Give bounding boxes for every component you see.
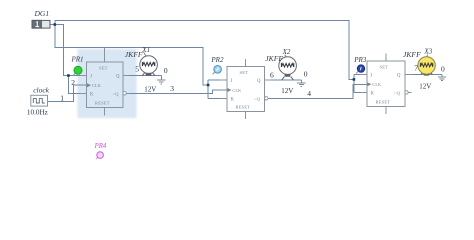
svg-text:4: 4	[307, 89, 311, 98]
svg-text:CLK: CLK	[372, 82, 381, 87]
svg-text:6: 6	[270, 70, 274, 79]
svg-text:DG1: DG1	[34, 9, 50, 18]
svg-text:0: 0	[164, 66, 168, 75]
svg-text:X2: X2	[282, 48, 291, 56]
svg-text:1: 1	[60, 93, 64, 102]
svg-text:RESET: RESET	[376, 100, 391, 105]
svg-text:0: 0	[441, 65, 445, 74]
svg-text:JKFF: JKFF	[125, 50, 143, 59]
svg-text:SET: SET	[99, 66, 108, 71]
svg-text:12V: 12V	[281, 87, 293, 95]
svg-text:JKFF: JKFF	[403, 50, 421, 59]
svg-text:Q: Q	[257, 79, 261, 84]
svg-text:~Q: ~Q	[394, 90, 401, 95]
svg-text:J: J	[371, 74, 373, 79]
svg-text:3: 3	[170, 84, 174, 93]
svg-text:12V: 12V	[419, 82, 431, 90]
svg-text:K: K	[90, 92, 94, 97]
svg-text:Q: Q	[116, 75, 120, 80]
svg-text:10.0Hz: 10.0Hz	[27, 109, 48, 117]
svg-text:RESET: RESET	[95, 101, 110, 106]
svg-text:J: J	[231, 79, 233, 84]
svg-text:X3: X3	[423, 48, 432, 56]
svg-text:CLK: CLK	[92, 83, 101, 88]
svg-text:PR2: PR2	[210, 56, 224, 64]
svg-text:K: K	[231, 97, 235, 102]
svg-text:~Q: ~Q	[113, 91, 120, 96]
svg-text:PR1: PR1	[71, 56, 84, 64]
svg-text:~Q: ~Q	[254, 96, 261, 101]
svg-text:PR4: PR4	[94, 143, 107, 150]
svg-text:12V: 12V	[144, 85, 156, 93]
svg-text:SET: SET	[380, 64, 389, 69]
svg-text:SET: SET	[240, 70, 249, 75]
svg-text:K: K	[371, 91, 375, 96]
svg-text:JKFF: JKFF	[265, 54, 283, 63]
svg-text:J: J	[90, 75, 92, 80]
svg-text:X1: X1	[141, 46, 150, 54]
svg-text:5: 5	[135, 64, 139, 73]
svg-text:clock: clock	[33, 86, 49, 95]
svg-text:0: 0	[304, 69, 308, 78]
svg-text:PR3: PR3	[353, 56, 367, 64]
svg-text:2: 2	[71, 78, 75, 87]
svg-text:RESET: RESET	[236, 105, 251, 110]
svg-text:CLK: CLK	[232, 88, 241, 93]
svg-text:7: 7	[414, 64, 418, 73]
svg-text:Q: Q	[397, 74, 401, 79]
